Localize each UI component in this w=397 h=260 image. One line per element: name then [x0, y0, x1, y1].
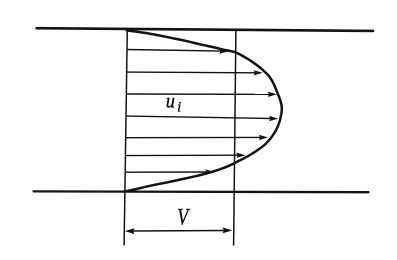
- svg-text:V: V: [177, 206, 190, 231]
- svg-text:i: i: [177, 99, 181, 115]
- svg-text:u: u: [166, 91, 175, 113]
